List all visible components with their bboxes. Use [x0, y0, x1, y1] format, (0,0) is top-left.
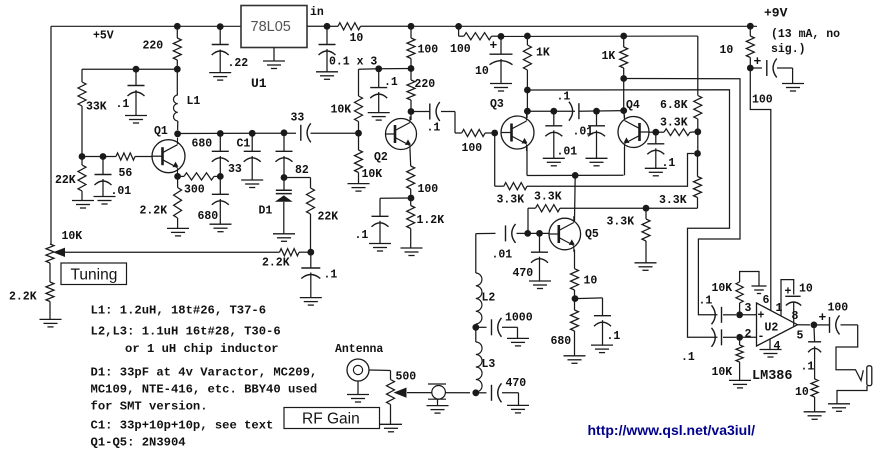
ground for C1 [241, 179, 263, 181]
transistor Q1 [152, 140, 185, 173]
wire +5V rail from left corner to regulator [51, 25, 241, 27]
node dot L1 top [174, 66, 181, 73]
svg-text:33K: 33K [86, 101, 107, 114]
svg-text:100: 100 [462, 142, 483, 155]
wire Q2 collector to 220 [410, 112, 412, 121]
svg-text:+: + [754, 54, 762, 69]
svg-text:10: 10 [475, 65, 489, 78]
capacitor .01 at Q1 base [102, 157, 104, 175]
svg-text:470: 470 [506, 377, 527, 390]
svg-text:0.1 x 3: 0.1 x 3 [329, 55, 377, 68]
capacitor .1 bias filter [378, 69, 380, 88]
node dot divider low [694, 150, 701, 157]
svg-text:.1: .1 [116, 98, 130, 111]
node dot .01 cap A [550, 108, 557, 115]
transistor Q4 mirrored [618, 117, 649, 148]
wire U2 output [798, 324, 811, 326]
svg-text:Q2: Q2 [374, 151, 388, 164]
capacitor 1000 tank [476, 326, 487, 328]
svg-text:10K: 10K [362, 168, 383, 181]
svg-text:10: 10 [795, 386, 809, 399]
node dot Q4 collector out [620, 75, 627, 82]
capacitor .1 Q2 emitter bypass [380, 197, 411, 199]
node dot Q2 emitter divider [408, 195, 415, 202]
capacitor C1 33pF [251, 133, 253, 151]
svg-text:L2: L2 [482, 292, 496, 305]
ground for 10uF [490, 83, 512, 85]
resistor 3.3K AGC [536, 205, 561, 212]
wire .01 to L2 [476, 232, 496, 234]
ground for 680 Q5 [564, 355, 586, 357]
node dot bias y69 [375, 65, 382, 72]
svg-text:22K: 22K [55, 174, 76, 187]
svg-text:10: 10 [350, 32, 364, 45]
node dot 1K Q4 rail [620, 33, 627, 40]
capacitor .22 bypass at regulator output [219, 26, 221, 44]
resistor 10 Q5 emitter [574, 250, 576, 269]
ground for .1 bias cap [125, 115, 147, 117]
capacitor .1 interstage [578, 103, 580, 119]
svg-text:.1: .1 [699, 295, 713, 308]
svg-text:2.2K: 2.2K [140, 205, 168, 218]
svg-text:220: 220 [143, 40, 164, 53]
resistor 220 vertical collector feed [176, 26, 178, 38]
resistor 10 supply dropper horizontal [327, 25, 338, 27]
wire 3.3K bias to right network [527, 154, 694, 187]
resistor 56 horizontal base [116, 153, 135, 160]
phone jack sleeve contact [837, 386, 867, 404]
ground for 470 Q5 base [529, 280, 551, 282]
wire y69 to Q2 collector branch [379, 68, 411, 70]
ground for .1 Q4 base [645, 167, 667, 169]
ground for 470 antenna [507, 404, 529, 406]
transistor Q5 [549, 218, 581, 250]
resistor 6.8K divider top [697, 36, 699, 95]
wire Q4 emitter down to y175 [624, 147, 626, 175]
svg-text:100: 100 [418, 183, 439, 196]
ground for 1000 cap [507, 337, 529, 339]
node dot .01 cap B [593, 108, 600, 115]
ground for U2 pin4 [769, 339, 771, 349]
node dot antenna tap [472, 389, 479, 396]
node dot cap680 top [217, 130, 224, 137]
node dot 10uF rail [498, 33, 505, 40]
node dot Q2 base [355, 130, 362, 137]
resistor 10K lower Q2 base [358, 133, 360, 150]
node dot Q1 base left [79, 153, 86, 160]
svg-text:Tuning: Tuning [71, 267, 118, 284]
capacitor 82 tuning tap [283, 133, 285, 152]
ground for 0.1x3 cap [316, 71, 338, 73]
svg-text:D1: D1 [259, 205, 273, 218]
capacitor .1 bypass at bias [135, 69, 137, 85]
node dot 100-resistor branch on rail [455, 23, 462, 30]
svg-text:Q5: Q5 [585, 228, 599, 241]
ground for 2.2K [167, 227, 189, 229]
svg-text:3: 3 [745, 302, 752, 315]
resistor 680 Q5 [574, 299, 576, 310]
node dot cap82 top [281, 129, 288, 136]
svg-text:sig.): sig.) [771, 43, 806, 56]
ground for 10K pin3 [752, 285, 767, 287]
svg-text:.1: .1 [662, 157, 676, 170]
wire supply to U2 pin6 [750, 68, 771, 311]
ground for .1 Q2 emitter cap [369, 243, 391, 245]
svg-text:.01: .01 [492, 249, 513, 262]
svg-text:3.3K: 3.3K [534, 191, 562, 204]
node dot Q5 emitter divider [572, 295, 579, 302]
resistor 2.2K Q1 emitter [177, 176, 179, 187]
resistor 100 Q3 base [462, 129, 485, 136]
ground for 10K pin2 [729, 379, 751, 381]
svg-text:10K: 10K [712, 282, 733, 295]
capacitor 680 feedback [219, 134, 221, 152]
svg-text:C1: C1 [237, 138, 251, 151]
svg-text:.1: .1 [427, 122, 441, 135]
ground for 10K lower [348, 183, 370, 185]
wire y69 left bias rail [82, 68, 177, 70]
svg-text:Antenna: Antenna [335, 343, 383, 356]
regulator U1 78L05 box [241, 6, 307, 48]
node dot Q3 base [491, 130, 498, 137]
svg-text:82: 82 [295, 164, 309, 177]
node dot Q5 base A [524, 230, 531, 237]
svg-text:.1: .1 [355, 229, 369, 242]
svg-text:1K: 1K [536, 47, 550, 60]
svg-text:10: 10 [799, 283, 813, 296]
svg-text:+: + [819, 310, 827, 325]
svg-text:10K: 10K [331, 104, 352, 117]
svg-text:100: 100 [752, 94, 773, 107]
svg-text:Q4: Q4 [626, 99, 640, 112]
potentiometer 10K tuning [46, 244, 54, 263]
svg-text:RF Gain: RF Gain [302, 411, 360, 428]
ground for antenna jack [357, 381, 359, 394]
capacitor 100uF output [814, 324, 830, 326]
capacitor 0.1x3 at in node [326, 26, 328, 44]
inductor L1 [176, 69, 178, 95]
svg-text:U1: U1 [251, 76, 267, 91]
svg-text:6.8K: 6.8K [660, 99, 688, 112]
wire antenna line y392 [407, 392, 470, 394]
node dot 3.3K emitter resistor top [643, 205, 650, 212]
svg-text:.01: .01 [111, 185, 132, 198]
node dot .1 cap on y69 wire [133, 66, 140, 73]
ground for jack [828, 403, 850, 405]
wire +9V rail [411, 25, 757, 27]
ground for .01 B [586, 157, 608, 159]
svg-text:22K: 22K [318, 211, 339, 224]
wire 10K upper to node y69 [359, 68, 379, 70]
wire Q3 collector stub [526, 111, 528, 118]
svg-text:http://www.qsl.net/va3iul/: http://www.qsl.net/va3iul/ [588, 422, 756, 438]
svg-text:10K: 10K [712, 366, 733, 379]
node dot .01 cap at base [100, 153, 107, 160]
node dot tuning right [307, 249, 314, 256]
svg-text:or 1 uH chip inductor: or 1 uH chip inductor [125, 342, 279, 356]
transistor Q3 [501, 116, 534, 149]
resistor 10K pin3 [739, 303, 741, 315]
svg-text:56: 56 [119, 167, 133, 180]
resistor 2.2K horizontal tuning [280, 249, 300, 256]
capacitor 470 antenna [476, 392, 487, 394]
node junction dot at .22 cap [217, 23, 224, 30]
node dot +9V filter [747, 65, 754, 72]
svg-text:+9V: +9V [764, 6, 788, 21]
wiper arrow of tuning pot [53, 248, 65, 257]
resistor 100 horizontal from rail dot [458, 26, 460, 36]
svg-text:in: in [310, 6, 324, 19]
capacitor 100uF supply electrolytic [750, 67, 762, 69]
ground for .1 Q5 emitter [591, 344, 613, 346]
node dot 680cap bottom [217, 173, 224, 180]
svg-text:10: 10 [720, 44, 734, 57]
ground for .01 A [543, 157, 565, 159]
ground for .01 base cap [94, 196, 116, 198]
svg-text:33: 33 [291, 112, 305, 125]
node dot D1 top [281, 174, 288, 181]
svg-text:1.2K: 1.2K [417, 214, 445, 227]
svg-text:680: 680 [198, 210, 219, 223]
trimmer capacitor to ground [428, 383, 446, 385]
resistor 10 +9V dropper [749, 26, 751, 36]
svg-text:5: 5 [797, 330, 804, 343]
svg-text:470: 470 [513, 267, 534, 280]
wire 10K pin3 to ground loop [740, 272, 759, 286]
resistor 220 vertical [410, 69, 412, 81]
capacitor 680 emitter bypass [219, 176, 221, 194]
resistor 3.3K Q4 base to divider [664, 129, 690, 136]
node dot Q4 base [652, 129, 659, 136]
resistor 1K Q3 collector [526, 36, 528, 45]
svg-text:100: 100 [828, 302, 849, 315]
svg-text:680: 680 [551, 335, 572, 348]
ground for RF gain pot [380, 423, 402, 425]
node dot divider mid [694, 128, 701, 135]
wiper arrow RF gain [394, 388, 407, 398]
svg-text:.1: .1 [384, 76, 398, 89]
svg-text:1K: 1K [602, 50, 616, 63]
node dot Q3 collector filter [524, 108, 531, 115]
capacitor .1 Q5 emitter [575, 297, 603, 300]
svg-text:+: + [490, 38, 498, 53]
ground for tuning pot [40, 318, 62, 320]
wire D1 node to 22K [284, 177, 311, 179]
svg-text:2.2K: 2.2K [9, 291, 37, 304]
wire coupling cap to Q3 base resistor [441, 111, 455, 113]
capacitor 33 coupling on y133 [300, 125, 302, 141]
svg-text:78L05: 78L05 [251, 19, 291, 35]
ground for 1.2K [401, 247, 423, 249]
resistor 22K vertical to ground [81, 157, 83, 166]
node dot 220-100 junction [408, 65, 415, 72]
svg-text:6: 6 [763, 294, 770, 307]
resistor 1K Q4 collector [623, 36, 625, 47]
svg-text:3.3K: 3.3K [660, 117, 688, 130]
svg-text:+5V: +5V [93, 30, 114, 43]
resistor 1.2K Q2 [410, 198, 412, 206]
svg-text:220: 220 [415, 78, 436, 91]
wire y111 interstage [527, 110, 575, 112]
capacitor .1 Q4 base to ground [655, 132, 657, 144]
svg-text:+: + [758, 310, 765, 323]
ground for trimmer [427, 405, 449, 407]
capacitor 470 Q5 base [539, 233, 541, 252]
node dot Q3 collector out to LM386 [524, 87, 531, 94]
svg-text:for SMT version.: for SMT version. [91, 400, 208, 414]
wire emitter rail y175 [527, 174, 624, 176]
svg-text:.1: .1 [557, 91, 571, 104]
node in junction dot [324, 23, 331, 30]
wire Q5 base drop [527, 208, 529, 233]
svg-text:-: - [758, 331, 765, 344]
svg-text:L1: L1 [187, 95, 201, 108]
svg-text:.22: .22 [228, 57, 249, 70]
node dot +9V right end [747, 23, 754, 30]
diode D1 varactor [283, 178, 285, 190]
capacitor .01 B to ground [596, 111, 598, 126]
svg-text:680: 680 [192, 138, 213, 151]
svg-text:L3: L3 [482, 358, 496, 371]
svg-text:100: 100 [418, 44, 439, 57]
wire left border vertical down to tuning pot [50, 26, 52, 244]
svg-text:2: 2 [745, 328, 752, 341]
node dot Q1 emitter [174, 173, 181, 180]
svg-text:Q1: Q1 [154, 125, 168, 138]
box Tuning label [61, 263, 127, 285]
wire Q5 collector up [574, 175, 577, 221]
resistor 33K vertical [78, 82, 86, 106]
svg-text:3.3K: 3.3K [659, 194, 687, 207]
resistor 300 horizontal [184, 173, 214, 180]
capacitor .1 tuning filter [310, 252, 312, 268]
node dot Q5 collector tap [572, 172, 579, 179]
svg-text:2.2K: 2.2K [262, 257, 290, 270]
phone jack plug [867, 366, 872, 386]
resistor 3.3K to ground mid [645, 208, 647, 219]
svg-text:.1: .1 [681, 351, 695, 364]
wire Q1 collector rail y133 to Q2 base [178, 132, 296, 134]
ground for .1 bias filter [368, 112, 390, 114]
wire antenna to RF gain pot [369, 369, 391, 372]
ground for D1 [273, 233, 295, 235]
ground for 22K [72, 200, 94, 202]
svg-text:33: 33 [228, 163, 242, 176]
svg-text:C1: 33p+10p+10p, see text: C1: 33p+10p+10p, see text [91, 419, 274, 433]
resistor 100 Q2 emitter [409, 150, 412, 167]
ground for 100uF [782, 83, 804, 85]
svg-text:MC109, NTE-416, etc. BBY40 use: MC109, NTE-416, etc. BBY40 used [91, 383, 318, 397]
capacitor .01 Q5 input [505, 225, 507, 241]
svg-text:Q1-Q5: 2N3904: Q1-Q5: 2N3904 [91, 436, 186, 450]
svg-text:Q3: Q3 [490, 98, 504, 111]
svg-text:1000: 1000 [505, 312, 533, 325]
wire 78L05 input to in node [307, 25, 327, 27]
wire Q3 base down [494, 133, 496, 186]
ground for zobel [804, 411, 826, 413]
svg-text:(13 mA, no: (13 mA, no [771, 28, 840, 41]
ground for .1 tuning cap [300, 297, 322, 299]
inductor L3 [475, 327, 477, 342]
svg-text:3.3K: 3.3K [497, 194, 525, 207]
svg-text:L2,L3: 1.1uH 16t#28, T30-6: L2,L3: 1.1uH 16t#28, T30-6 [91, 325, 281, 339]
node dot Q1 collector [174, 130, 181, 137]
node junction dot at 220-resistor top [174, 23, 181, 30]
svg-text:.01: .01 [573, 126, 594, 139]
resistor 2.2K lower pot leg [46, 282, 54, 302]
capacitor .1 Q2 collector coupling [411, 111, 430, 113]
wire in-resistor to +9V rail [361, 25, 412, 27]
capacitor .1 U2 pin3 input [721, 307, 723, 323]
transistor Q2 [386, 119, 417, 150]
node dot Q4 collector filter [620, 107, 627, 114]
node dot Q3 1K top [524, 33, 531, 40]
svg-text:.1: .1 [607, 330, 621, 343]
node dot pin2 [736, 334, 743, 341]
svg-text:3.3K: 3.3K [607, 216, 635, 229]
zobel .1 cap [813, 325, 816, 342]
resistor 3.3K divider lower [697, 154, 699, 177]
inductor L2 [476, 273, 482, 324]
ground for 3.3K mid [635, 262, 657, 264]
resistor 10K pin2 [739, 337, 741, 345]
antenna jack [347, 359, 369, 381]
node dot capC1 top [249, 130, 256, 137]
ground for 78L05 [273, 48, 275, 61]
resistor 3.3K Q3 base bias [495, 185, 504, 187]
node dot pin3 [736, 311, 743, 318]
box RF Gain label [284, 408, 380, 429]
wire tuning line y252 [63, 251, 280, 253]
svg-text:LM386: LM386 [752, 369, 793, 384]
svg-text:L1: 1.2uH, 18t#26, T37-6: L1: 1.2uH, 18t#26, T37-6 [91, 304, 267, 318]
resistor 22K to tuning line [307, 188, 315, 214]
resistor 10 zobel [811, 379, 818, 397]
op-amp U2 LM386 triangle [757, 303, 798, 346]
svg-text:500: 500 [396, 371, 417, 384]
svg-text:.1: .1 [324, 269, 338, 282]
wire output to jack [836, 325, 863, 381]
svg-text:300: 300 [184, 184, 205, 197]
svg-text:4: 4 [774, 340, 781, 353]
resistor 100 vertical from rail [410, 26, 412, 38]
svg-text:8: 8 [792, 310, 799, 323]
resistor 10K upper Q2 bias [355, 96, 363, 122]
node dot L2-L3 junction [472, 324, 479, 331]
potentiometer 500 RF gain [387, 380, 395, 405]
svg-text:D1: 33pF at 4v Varactor, MC209: D1: 33pF at 4v Varactor, MC209, [91, 366, 318, 380]
wire y208 AGC line [528, 207, 536, 209]
svg-text:10: 10 [584, 275, 598, 288]
svg-text:+: + [785, 286, 792, 299]
wire Q3 emitter to y175 rail [526, 146, 528, 176]
node dot Q5 base B [536, 230, 543, 237]
node dot Q2-collector-branch on rail [408, 23, 415, 30]
ground for 680 cap [210, 223, 232, 225]
ground for .22 cap [209, 72, 231, 74]
capacitor .1 U2 pin2 input [721, 329, 723, 345]
wire A Q4 collector to U2 pin3 routing [624, 79, 740, 315]
wire B Q3 collector to U2 pin2 routing [527, 90, 729, 338]
capacitor .01 A to ground [553, 111, 555, 126]
svg-text:U2: U2 [765, 322, 779, 335]
node dot output [811, 322, 818, 329]
wire collector rail y36 [501, 35, 698, 37]
svg-text:10K: 10K [62, 230, 83, 243]
svg-text:.1: .1 [801, 361, 815, 374]
svg-text:100: 100 [450, 43, 471, 56]
capacitor 10uF gain pins 1-8 [781, 280, 794, 316]
